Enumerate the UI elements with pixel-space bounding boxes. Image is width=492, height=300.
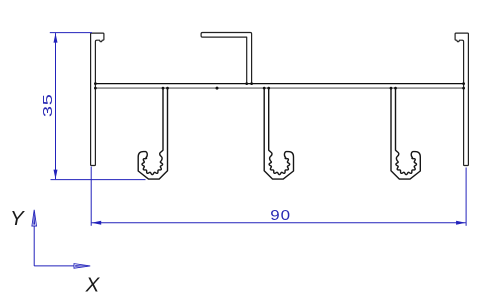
svg-text:Y: Y: [10, 207, 25, 230]
svg-text:X: X: [85, 274, 101, 296]
svg-text:35: 35: [40, 93, 55, 117]
svg-text:90: 90: [270, 208, 291, 224]
